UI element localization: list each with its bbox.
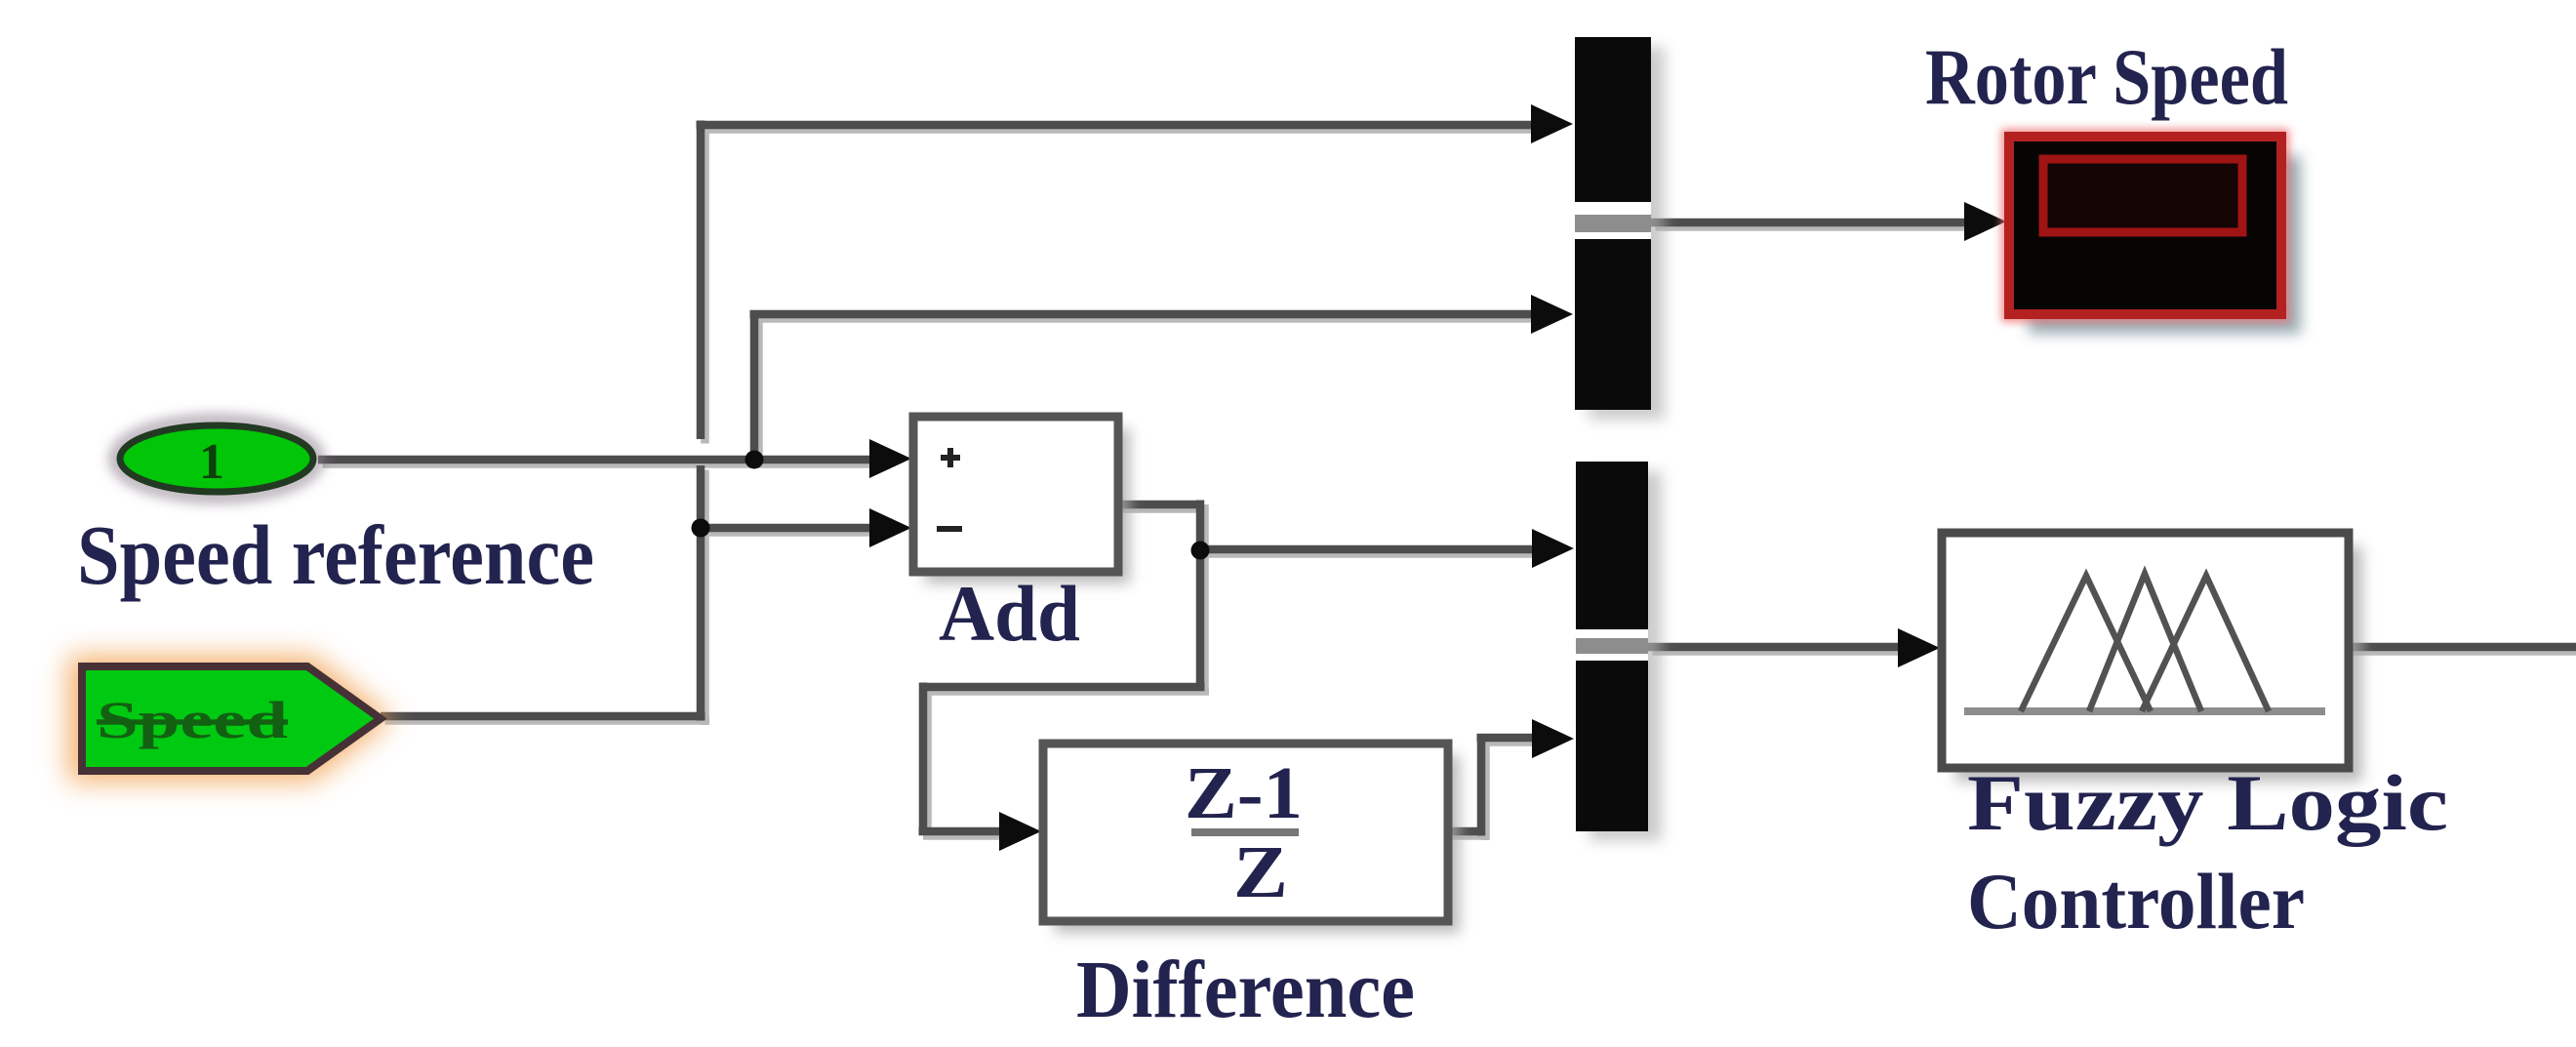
wire shadows — [323, 125, 2576, 840]
svg-text:Difference: Difference — [1076, 945, 1415, 1035]
goto tag Speed with orange glow — [68, 656, 392, 782]
inport oval 1 — [115, 421, 318, 497]
svg-text:Speed reference: Speed reference — [77, 507, 594, 602]
Difference block — [1043, 744, 1460, 933]
svg-text:Add: Add — [939, 569, 1080, 658]
svg-text:Controller: Controller — [1967, 857, 2305, 946]
arrowhead into Mux1 input1 — [1531, 104, 1573, 143]
arrowhead into Difference — [999, 812, 1041, 851]
svg-text:Speed: Speed — [97, 691, 288, 749]
junction dot D2 — [692, 519, 710, 538]
svg-text:Z-1: Z-1 — [1185, 752, 1303, 834]
Mux1 (top) — [1575, 37, 1665, 420]
arrowhead into Mux1 input2 — [1531, 295, 1573, 334]
arrowhead into Add minus — [869, 508, 911, 547]
Fuzzy Logic Controller block — [1942, 533, 2362, 782]
arrowhead into Add plus — [869, 439, 911, 478]
Scope Rotor Speed — [2006, 134, 2301, 334]
svg-text:Rotor Speed: Rotor Speed — [1925, 32, 2288, 121]
arrowhead into Mux2 input1 — [1532, 529, 1574, 568]
junction dot D3 — [1191, 542, 1210, 560]
Mux2 (bottom) — [1576, 462, 1662, 841]
junction dot D1 — [745, 451, 764, 469]
Add block — [913, 417, 1130, 584]
svg-text:Z: Z — [1233, 831, 1288, 913]
svg-text:1: 1 — [199, 434, 224, 490]
arrowhead into Fuzzy — [1898, 628, 1940, 667]
arrowhead into Mux2 input2 — [1532, 719, 1574, 758]
svg-text:Fuzzy Logic: Fuzzy Logic — [1967, 758, 2448, 847]
arrowhead into Scope — [1964, 202, 2006, 241]
